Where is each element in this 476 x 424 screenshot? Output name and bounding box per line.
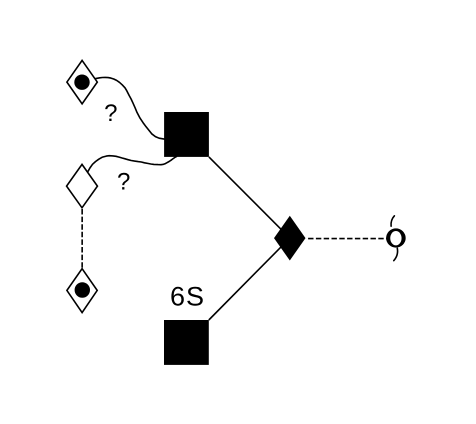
node: reducing-end O glyph (outer ring): [386, 228, 406, 247]
node: filled dot inside bottom-left diamond: [75, 282, 90, 297]
wire: reducing-end bracket curve (top): [391, 216, 394, 226]
wire: curved linkage from hollow diamond to top GlcNAc square: [88, 156, 176, 172]
node: top-left diamond outline (substituent carrier): [67, 60, 97, 103]
wire: dashed vertical linkage between hollow diamond and bottom dotted-diamond: [81, 209, 83, 268]
svg-text:6S: 6S: [170, 282, 205, 312]
node: bottom GlcNAc filled square: [164, 320, 209, 365]
svg-text:?: ?: [104, 100, 117, 127]
node: central filled diamond (sialic acid): [274, 216, 306, 261]
node: reducing-end O glyph (inner hole): [390, 231, 401, 245]
node: top GlcNAc filled square: [164, 112, 209, 157]
wire: curved linkage from top dotted-diamond to top GlcNAc square: [95, 77, 164, 139]
wire: reducing-end bracket curve (bottom): [394, 248, 398, 260]
node: bottom-left diamond outline (substituent carrier): [67, 269, 97, 313]
wire: dashed horizontal linkage from filled diamond to reducing-end O: [308, 238, 389, 240]
svg-text:?: ?: [117, 169, 130, 196]
node: hollow diamond (unknown residue): [67, 164, 98, 207]
wire: line from top GlcNAc square corner to central filled diamond: [209, 157, 290, 238]
wire: line from bottom GlcNAc square corner to central filled diamond: [209, 238, 290, 320]
node: filled dot inside top-left diamond: [74, 75, 89, 90]
